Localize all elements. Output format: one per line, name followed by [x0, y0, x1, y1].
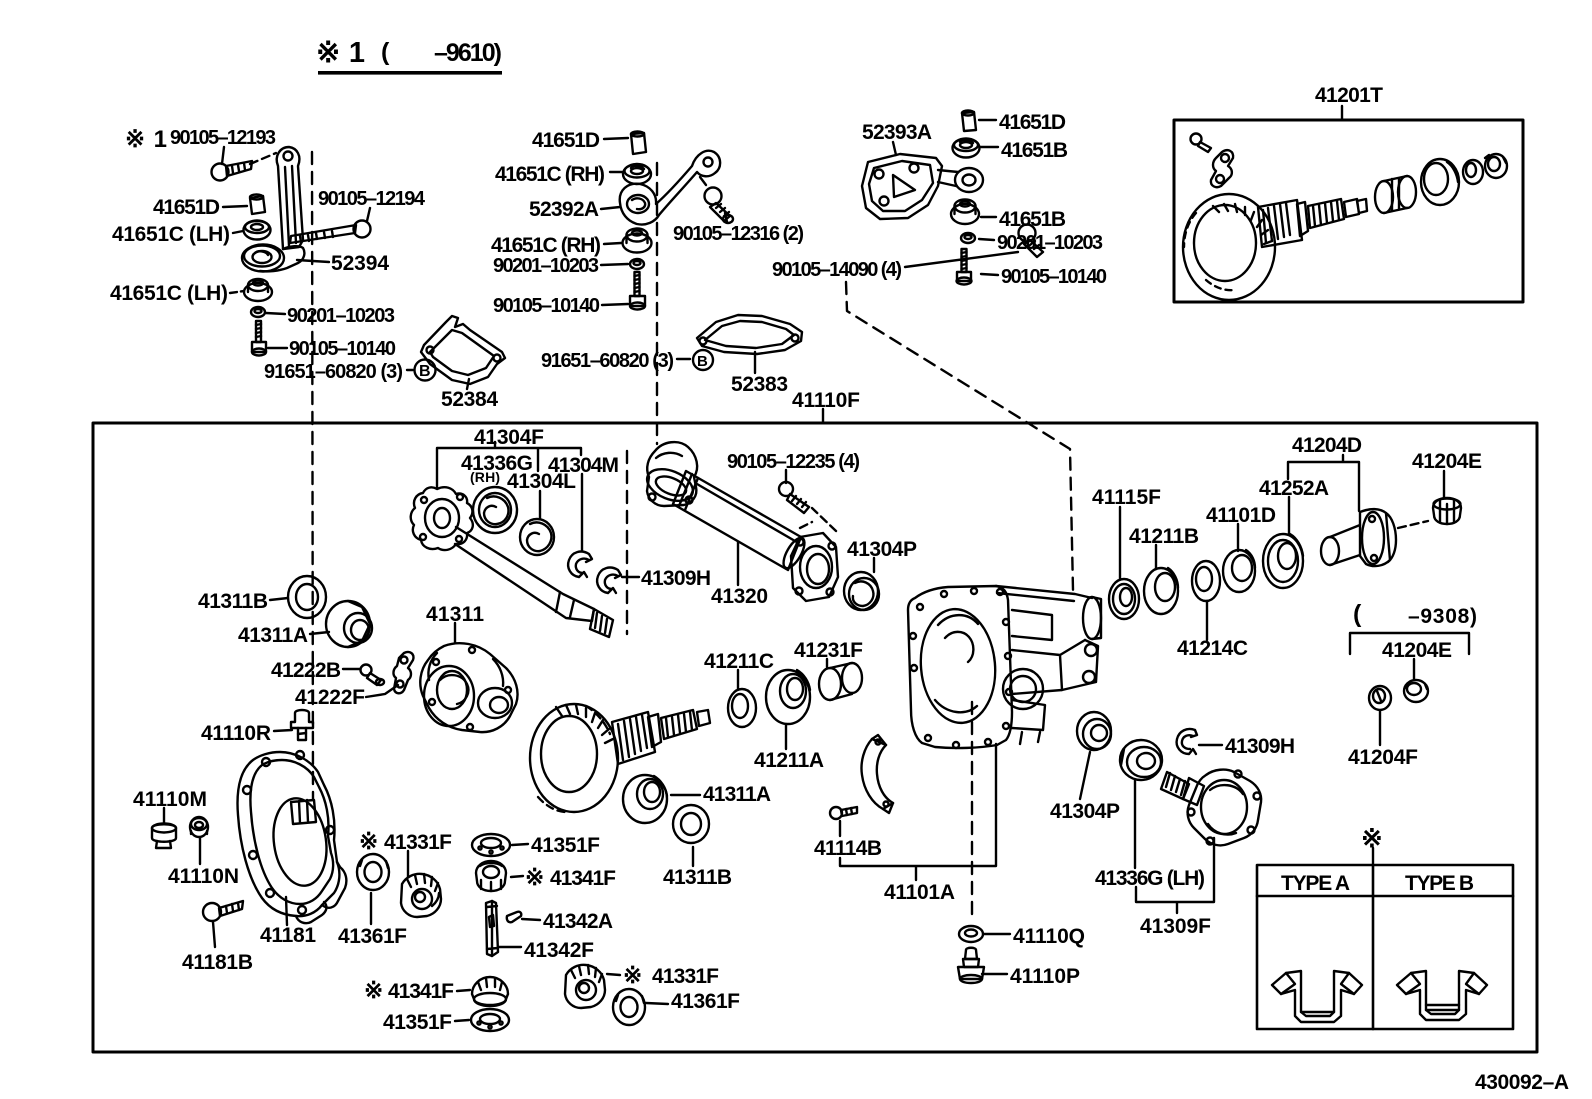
washer 90201-10203 left — [251, 307, 265, 317]
label 41342F — [524, 939, 594, 962]
svg-text:41201T: 41201T — [1315, 84, 1383, 107]
cushion 41651C (RH) upper — [623, 164, 651, 184]
oil seal 41336G (RH) — [473, 487, 517, 533]
oil seal 41304P upper — [844, 572, 879, 610]
label ※ above table — [1361, 823, 1383, 853]
collar 41231F — [819, 663, 862, 700]
oil seal 41115F — [1109, 579, 1139, 619]
pinion gear 41331F left — [401, 874, 441, 917]
leader 41651C (RH) — [610, 171, 622, 173]
label 41252A — [1259, 477, 1329, 500]
dashed line flange to nut 41204E — [1398, 521, 1428, 528]
svg-text:B: B — [419, 363, 431, 380]
svg-text:52384: 52384 — [441, 388, 498, 411]
leader 90105-10140 — [981, 274, 998, 275]
leader 41341F mid — [511, 876, 523, 877]
svg-text:TYPE A: TYPE A — [1281, 872, 1350, 895]
tube of propeller shaft 41320 — [673, 471, 809, 571]
leader 41114B and bracket 41101A — [840, 744, 996, 880]
svg-text:41311A: 41311A — [238, 624, 308, 647]
svg-text:90105–12193: 90105–12193 — [170, 127, 276, 149]
label 52383 — [731, 373, 788, 396]
leader 41304P lower right — [1080, 752, 1090, 799]
label 41204D — [1292, 434, 1362, 457]
label 41110F — [792, 389, 860, 412]
label 91651-60820 (3) — [264, 361, 403, 383]
leader 52394 — [297, 260, 329, 262]
leader 90105-12193 — [222, 147, 224, 164]
bolt 90105-10140 middle — [630, 272, 645, 310]
svg-text:41110P: 41110P — [1010, 965, 1080, 988]
label 90105-14090 (4) — [772, 259, 902, 281]
bolt 90105-10140 right — [957, 249, 972, 285]
leader 41211C — [737, 670, 739, 689]
label 41204E — [1412, 450, 1482, 473]
svg-text:41311A: 41311A — [703, 783, 771, 806]
sleeve 41651D left — [250, 195, 265, 215]
svg-text:41320: 41320 — [711, 585, 768, 608]
cushion 41651B lower — [951, 200, 979, 225]
leader 41110P — [982, 973, 1007, 975]
svg-text:41101D: 41101D — [1206, 504, 1276, 527]
svg-text:90105–10140: 90105–10140 — [493, 295, 600, 317]
label 41651C (RH) — [495, 163, 605, 186]
front yoke of 41320 — [643, 442, 698, 507]
leader 41651C (LH) second — [230, 291, 244, 293]
leader 41651D — [604, 138, 628, 139]
leader 41181B — [213, 922, 215, 947]
cushion 41651C (RH) lower — [623, 229, 652, 253]
svg-text:52394: 52394 — [331, 252, 389, 275]
svg-text:41214C: 41214C — [1177, 637, 1248, 660]
label 91651-60820 (3) — [541, 350, 674, 372]
svg-text:41651B: 41651B — [1001, 139, 1068, 162]
svg-text:41651C (LH): 41651C (LH) — [110, 282, 228, 305]
svg-text:41181B: 41181B — [182, 951, 253, 974]
bracket ( -9308) — [1350, 633, 1469, 654]
label 52394 — [331, 252, 389, 275]
label 41651B — [1001, 139, 1068, 162]
leader 41101D — [1237, 524, 1239, 551]
drive pinion in 41201T box — [1258, 199, 1367, 247]
nut in 41201T box — [1485, 154, 1507, 178]
leader 90105-10140 — [602, 304, 628, 305]
main assembly box 41110F frame — [93, 423, 1537, 1052]
leader ※ table — [1372, 848, 1374, 865]
label 41110P — [1010, 965, 1080, 988]
svg-text:41361F: 41361F — [338, 925, 407, 948]
dashed line through 52394 group — [312, 152, 313, 800]
leader 41311B upper — [270, 598, 288, 600]
label 90105-12194 — [318, 188, 426, 210]
snap ring 41304M — [568, 552, 592, 577]
label 90105-10140 — [493, 295, 600, 317]
svg-text:※: ※ — [359, 828, 378, 854]
label 41309H left — [641, 567, 711, 590]
label TYPE A — [1281, 872, 1350, 895]
svg-text:41204E: 41204E — [1412, 450, 1482, 473]
side gear thrust washer 41351F bottom — [471, 1009, 509, 1031]
skid plate 52383 — [697, 315, 802, 354]
svg-text:41651D: 41651D — [999, 111, 1066, 134]
label 90201-10203 — [997, 232, 1103, 254]
leader 41204E lower — [1413, 659, 1415, 679]
pinion gear 41331F right — [565, 965, 605, 1008]
note header "※1 ( -9610)" — [316, 37, 502, 69]
svg-text:41204F: 41204F — [1348, 746, 1418, 769]
label 41181 — [260, 924, 316, 947]
label 41304L — [507, 470, 576, 493]
label 41651D — [999, 111, 1066, 134]
leader 41320 — [737, 542, 739, 585]
drain plug 41110P — [958, 948, 984, 983]
svg-text:41181: 41181 — [260, 924, 316, 947]
differential case 41311 — [420, 643, 517, 732]
svg-text:41309F: 41309F — [1140, 915, 1211, 938]
nut 41110N — [190, 817, 208, 837]
leader 41342A — [522, 919, 540, 920]
label *41331F right — [623, 962, 719, 988]
thrust washer 41211C — [728, 689, 756, 727]
type table header row line — [1257, 895, 1513, 898]
svg-text:91651–60820 (3): 91651–60820 (3) — [541, 350, 674, 372]
housing 41101A — [908, 586, 1101, 748]
clip TYPE A — [1272, 971, 1362, 1022]
bolt 90105-12194 — [290, 221, 371, 244]
svg-text:430092–A: 430092–A — [1475, 1071, 1569, 1094]
leader 90201-10203 — [601, 264, 628, 265]
label 41351F bottom — [383, 1011, 452, 1034]
leader 90105-12194 — [367, 208, 370, 221]
leader 52384 — [467, 379, 469, 389]
circled B symbol — [415, 360, 436, 381]
svg-text:B: B — [697, 353, 708, 370]
label 41181B — [182, 951, 253, 974]
pinion spacer link in 41201T box — [1211, 150, 1233, 187]
label 41304F — [474, 426, 544, 449]
label 41651C (LH) — [112, 223, 230, 246]
label 41222B — [271, 659, 341, 682]
leader 41204F — [1379, 711, 1381, 745]
leader 41342F — [499, 946, 521, 948]
leader 41309H left — [622, 576, 639, 578]
bolt 90105-12316 — [705, 188, 734, 224]
label 90105-10140 — [289, 338, 396, 360]
label 41110Q — [1013, 925, 1085, 948]
label 41309F — [1140, 915, 1211, 938]
front bearing 41211A — [766, 670, 810, 724]
label 41115F — [1092, 486, 1161, 509]
bushing 41304L — [520, 519, 554, 555]
label ( -9308) — [1353, 600, 1477, 628]
svg-text:41351F: 41351F — [383, 1011, 452, 1034]
svg-text:90105–14090 (4): 90105–14090 (4) — [772, 259, 902, 281]
svg-text:41304F: 41304F — [474, 426, 544, 449]
companion flange 41204D — [1321, 509, 1396, 566]
svg-text:41342F: 41342F — [524, 939, 594, 962]
label 41311B upper — [198, 590, 268, 613]
rear bearing 41252A — [1263, 534, 1303, 588]
differential carrier cover 41181 — [238, 751, 347, 923]
bolt 41222B — [361, 665, 385, 686]
label 90105-10140 — [1001, 266, 1107, 288]
label 41651D — [153, 196, 220, 219]
svg-text:41651C (LH): 41651C (LH) — [112, 223, 230, 246]
svg-text:41231F: 41231F — [794, 639, 863, 662]
svg-text:41110R: 41110R — [201, 722, 271, 745]
leader 41214C — [1206, 601, 1208, 640]
label 41211B — [1129, 525, 1199, 548]
skid plate 52384 — [421, 316, 505, 384]
leader 41651C (LH) — [233, 231, 243, 233]
cushion 41651C (LH) lower — [244, 279, 272, 301]
leader 90105-12316 — [725, 213, 727, 222]
label 41214C — [1177, 637, 1248, 660]
ring gear 41201T — [1183, 194, 1275, 300]
label 41361F left — [338, 925, 407, 948]
rear bearing 41311A lower — [623, 775, 667, 823]
leader 41181 — [286, 897, 287, 925]
svg-text:41651D: 41651D — [532, 129, 600, 152]
label 41204F — [1348, 746, 1418, 769]
bolt 90105-12193 — [212, 161, 253, 181]
leader 41361F left — [370, 893, 372, 924]
leader 41311 — [454, 623, 456, 643]
washer 41204F — [1369, 686, 1391, 710]
side bearing 41311A upper — [326, 601, 372, 647]
label 52392A — [529, 198, 599, 221]
header underline — [318, 71, 502, 75]
side gear 41341F bottom — [472, 977, 508, 1006]
label 41110N — [168, 865, 239, 888]
svg-text:91651–60820 (3): 91651–60820 (3) — [264, 361, 403, 383]
label 41336G (LH) — [1095, 867, 1205, 890]
oil seal 41311B upper — [288, 576, 326, 618]
svg-text:90201–10203: 90201–10203 — [287, 305, 395, 327]
bolt 41114B — [830, 807, 857, 819]
svg-text:41651C (RH): 41651C (RH) — [491, 234, 601, 257]
svg-text:TYPE B: TYPE B — [1405, 872, 1474, 895]
svg-text:41222F: 41222F — [295, 686, 365, 709]
leader 52392A — [601, 207, 620, 209]
label *41341F mid — [525, 864, 616, 890]
svg-text:–9308): –9308) — [1408, 605, 1477, 628]
svg-text:41304P: 41304P — [1050, 800, 1120, 823]
svg-text:41361F: 41361F — [671, 990, 740, 1013]
lock plate 41222F — [393, 652, 413, 693]
label 41304M — [548, 454, 619, 477]
svg-text:–9610): –9610) — [434, 39, 502, 67]
leader 41351F mid — [512, 844, 528, 845]
dashed line housing to drain plug — [971, 702, 973, 920]
leader 41331F right — [607, 974, 620, 975]
label 41304P lower right — [1050, 800, 1120, 823]
leader 90201-10203 — [979, 239, 994, 240]
label 41311A lower — [703, 783, 771, 806]
label 41311B lower — [663, 866, 732, 889]
svg-text:41331F: 41331F — [652, 965, 719, 988]
svg-text:41110N: 41110N — [168, 865, 239, 888]
svg-text:90105–10140: 90105–10140 — [289, 338, 396, 360]
leader 41110N — [199, 838, 201, 864]
dashed line into box toward 41320 — [626, 451, 628, 634]
leader 41311B lower — [692, 847, 694, 866]
label 41651C (LH) second — [110, 282, 228, 305]
washer 90201-10203 right — [961, 233, 975, 243]
svg-text:※: ※ — [364, 977, 383, 1003]
leader 90201-10203 — [266, 313, 285, 314]
mounting bracket 52393A — [862, 154, 983, 219]
label 41320 — [711, 585, 768, 608]
svg-text:41342A: 41342A — [543, 910, 613, 933]
leader to circle B — [677, 358, 690, 360]
svg-text:41110M: 41110M — [133, 788, 207, 811]
leader to circle B — [407, 369, 413, 371]
label 52384 — [441, 388, 498, 411]
label 41309H right — [1225, 735, 1295, 758]
leader 41651B — [981, 146, 998, 148]
leader 41311A lower — [671, 794, 700, 796]
idler bracket arm 52392A — [620, 151, 720, 225]
svg-text:52392A: 52392A — [529, 198, 599, 221]
label 41211A — [754, 749, 824, 772]
svg-text:41101A: 41101A — [884, 881, 955, 904]
svg-text:90105–10140: 90105–10140 — [1001, 266, 1107, 288]
dashed line from 52393A group to housing — [846, 282, 1073, 590]
svg-text:※: ※ — [525, 864, 544, 890]
svg-text:41309H: 41309H — [641, 567, 711, 590]
label 90105-12235 (4) — [727, 451, 860, 473]
svg-text:41110Q: 41110Q — [1013, 925, 1085, 948]
leader 41231F — [826, 659, 828, 667]
label *41331F left — [359, 828, 452, 854]
leader 41204E — [1443, 471, 1445, 498]
svg-text:41211A: 41211A — [754, 749, 824, 772]
label 90201-10203 — [287, 305, 395, 327]
leader 41252A — [1288, 497, 1290, 534]
leader 41341F bottom — [457, 990, 470, 991]
bearing in 41201T box — [1421, 159, 1459, 205]
label 41336G (RH) — [461, 452, 533, 485]
svg-text:41651C (RH): 41651C (RH) — [495, 163, 605, 186]
svg-text:90105–12235 (4): 90105–12235 (4) — [727, 451, 860, 473]
label 41304P upper — [847, 538, 917, 561]
leader 41110R — [274, 730, 292, 731]
svg-text:41204D: 41204D — [1292, 434, 1362, 457]
side gear thrust washer 41351F mid — [472, 834, 510, 856]
leader 41651D — [223, 206, 247, 207]
leader 41336G (LH) — [1134, 780, 1136, 868]
circled B symbol — [693, 350, 713, 370]
svg-text:41651D: 41651D — [153, 196, 220, 219]
label *1 90105-12193 — [125, 126, 276, 153]
label 41361F right — [671, 990, 740, 1013]
leader 41351F bottom — [455, 1020, 469, 1021]
leader 41222F — [366, 685, 398, 697]
leader 41651D — [979, 119, 996, 121]
svg-text:90201–10203: 90201–10203 — [493, 255, 599, 277]
thrust washer 41214C — [1192, 561, 1220, 601]
svg-text:90201–10203: 90201–10203 — [997, 232, 1103, 254]
leader 41331F left — [407, 851, 409, 877]
leader 90105-14090 — [905, 252, 1018, 267]
leader 41311A upper — [310, 632, 329, 634]
collapsible spacer in 41201T box — [1375, 176, 1416, 213]
leader 52383 — [754, 352, 756, 373]
leader 41304P upper — [873, 558, 875, 572]
nut 41204E lower — [1404, 680, 1428, 702]
gasket washer 41110Q — [959, 926, 983, 942]
svg-text:(: ( — [381, 38, 390, 66]
bolt 90105-10140 left — [252, 321, 266, 356]
svg-text:41309H: 41309H — [1225, 735, 1295, 758]
sleeve 41651D right — [962, 111, 976, 132]
front bearing 41211B — [1144, 568, 1178, 614]
label TYPE B — [1405, 872, 1474, 895]
svg-text:52393A: 52393A — [862, 121, 932, 144]
drain plug 41110M — [152, 824, 176, 849]
leader 41304L — [539, 491, 541, 519]
label 41101D — [1206, 504, 1276, 527]
leader 41115F — [1119, 507, 1121, 579]
label 90201-10203 — [493, 255, 599, 277]
svg-text:41304L: 41304L — [507, 470, 576, 493]
label 41222F — [295, 686, 365, 709]
leader 41651C (RH) second — [604, 243, 621, 244]
type table divider vertical — [1372, 865, 1375, 1029]
leader 41110F — [822, 409, 824, 422]
svg-text:41341F: 41341F — [550, 867, 616, 890]
label 52393A — [862, 121, 932, 144]
label 41651B second — [999, 208, 1066, 231]
ring gear (drive gear) — [530, 704, 618, 812]
label 41110R — [201, 722, 271, 745]
svg-text:52383: 52383 — [731, 373, 788, 396]
leader 90105-10140 — [268, 347, 287, 349]
bolt 41181B — [203, 901, 243, 921]
dashed line bolt 90105-12193 to bracket — [250, 153, 276, 164]
svg-text:41336G (LH): 41336G (LH) — [1095, 867, 1205, 890]
leader 90105-12235 — [785, 470, 787, 483]
thrust washer 41361F right — [613, 989, 645, 1025]
svg-text:※: ※ — [623, 962, 642, 988]
41201T box frame — [1174, 120, 1523, 302]
nut 41204E upper — [1433, 498, 1461, 524]
breather plug 41110R — [291, 710, 313, 740]
oil seal 41311B lower — [673, 805, 709, 843]
label 41231F — [794, 639, 863, 662]
thrust washer 41361F left — [357, 854, 389, 890]
straight pin 41342A — [507, 912, 521, 923]
svg-text:(RH): (RH) — [470, 469, 500, 485]
leader 41110M — [163, 808, 165, 824]
pinion shaft 41342F — [486, 901, 498, 956]
svg-text:41115F: 41115F — [1092, 486, 1161, 509]
leader 41222B — [343, 668, 360, 670]
svg-text:90105–12194: 90105–12194 — [318, 188, 426, 210]
bolt small in 41201T box — [1191, 134, 1212, 153]
svg-text:41114B: 41114B — [814, 837, 882, 860]
label 90105-12316 (2) — [673, 223, 804, 245]
oil seal 41336G (LH) — [1120, 740, 1162, 780]
svg-text:41311B: 41311B — [663, 866, 732, 889]
svg-text:41252A: 41252A — [1259, 477, 1329, 500]
label 41201T — [1315, 84, 1383, 107]
side gear 41341F mid — [476, 861, 506, 891]
leader 41651B second — [981, 216, 996, 218]
svg-text:41311B: 41311B — [198, 590, 268, 613]
leader 41309H right — [1199, 744, 1222, 746]
